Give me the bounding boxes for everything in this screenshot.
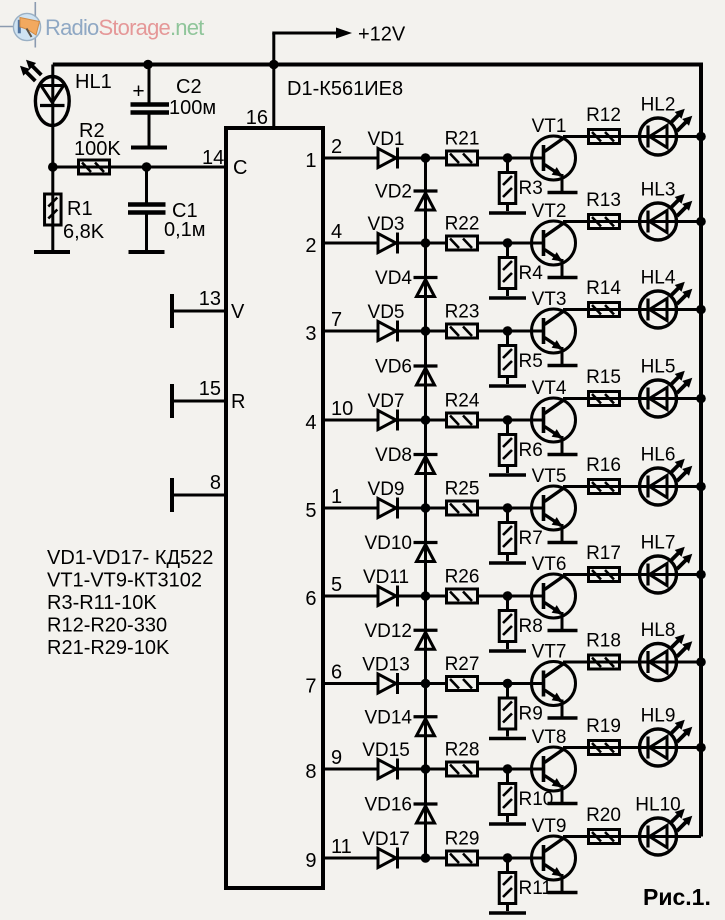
svg-text:R22: R22 — [445, 214, 480, 235]
svg-text:1: 1 — [331, 486, 342, 508]
svg-text:C2: C2 — [176, 76, 202, 98]
svg-text:VD16: VD16 — [364, 795, 412, 816]
svg-text:VT4: VT4 — [532, 378, 567, 399]
svg-text:R10: R10 — [519, 789, 554, 810]
svg-text:Рис.1.: Рис.1. — [643, 884, 711, 910]
svg-text:100м: 100м — [169, 97, 216, 119]
svg-text:D1-К561ИЕ8: D1-К561ИЕ8 — [287, 78, 403, 100]
svg-text:R9: R9 — [519, 704, 543, 725]
svg-text:+: + — [132, 80, 144, 103]
svg-text:HL5: HL5 — [641, 357, 676, 378]
svg-text:HL2: HL2 — [641, 95, 676, 116]
svg-text:VT2: VT2 — [532, 201, 567, 222]
svg-text:+12V: +12V — [358, 24, 406, 46]
svg-text:7: 7 — [331, 309, 342, 331]
svg-text:VD10: VD10 — [364, 533, 412, 554]
svg-text:4: 4 — [305, 412, 316, 434]
svg-text:R21-R29-10K: R21-R29-10K — [47, 637, 170, 659]
svg-text:5: 5 — [305, 500, 316, 522]
svg-text:100K: 100K — [74, 138, 121, 160]
svg-text:6,8K: 6,8K — [63, 221, 105, 243]
svg-text:R12-R20-330: R12-R20-330 — [47, 615, 167, 637]
svg-text:R26: R26 — [445, 567, 480, 588]
svg-text:R11: R11 — [519, 878, 552, 899]
svg-text:7: 7 — [305, 676, 316, 698]
svg-text:VD12: VD12 — [364, 621, 412, 642]
svg-text:R14: R14 — [586, 278, 621, 299]
svg-text:VT9: VT9 — [532, 816, 567, 837]
svg-text:VT8: VT8 — [532, 727, 567, 748]
svg-text:C: C — [233, 157, 247, 179]
svg-text:VD2: VD2 — [375, 182, 412, 203]
svg-text:R25: R25 — [445, 479, 480, 500]
svg-text:VD6: VD6 — [375, 357, 412, 378]
svg-text:VT1-VT9-КТ3102: VT1-VT9-КТ3102 — [47, 570, 202, 592]
svg-text:6: 6 — [331, 662, 342, 684]
svg-text:9: 9 — [331, 747, 342, 769]
svg-text:R12: R12 — [586, 105, 621, 126]
svg-text:R20: R20 — [586, 805, 621, 826]
svg-text:2: 2 — [305, 235, 316, 257]
svg-text:R3: R3 — [519, 178, 543, 199]
svg-text:13: 13 — [199, 288, 221, 310]
svg-text:15: 15 — [199, 378, 221, 400]
svg-text:4: 4 — [331, 221, 342, 243]
svg-text:R18: R18 — [586, 631, 621, 652]
svg-text:R6: R6 — [519, 440, 543, 461]
svg-text:VT5: VT5 — [532, 466, 567, 487]
svg-text:R16: R16 — [586, 455, 621, 476]
svg-text:HL10: HL10 — [635, 795, 680, 816]
svg-text:9: 9 — [305, 850, 316, 872]
svg-text:R23: R23 — [445, 302, 480, 323]
svg-text:VD8: VD8 — [375, 445, 412, 466]
svg-text:VD17: VD17 — [362, 829, 410, 850]
svg-text:R15: R15 — [586, 367, 621, 388]
svg-text:VD11: VD11 — [363, 567, 409, 588]
svg-text:VT3: VT3 — [532, 289, 567, 310]
svg-text:VT6: VT6 — [532, 554, 567, 575]
svg-text:VD5: VD5 — [368, 302, 405, 323]
svg-text:R3-R11-10K: R3-R11-10K — [47, 592, 157, 614]
svg-text:HL9: HL9 — [641, 706, 676, 727]
svg-text:R13: R13 — [586, 190, 621, 211]
svg-text:HL7: HL7 — [641, 533, 676, 554]
svg-text:R7: R7 — [519, 528, 543, 549]
svg-text:2: 2 — [331, 136, 342, 158]
svg-text:VD3: VD3 — [368, 214, 405, 235]
svg-text:3: 3 — [305, 323, 316, 345]
svg-text:VD9: VD9 — [368, 479, 405, 500]
svg-text:8: 8 — [210, 472, 221, 494]
svg-text:0,1м: 0,1м — [164, 219, 206, 241]
svg-text:R1: R1 — [67, 198, 93, 220]
svg-text:R21: R21 — [445, 129, 480, 150]
svg-text:VD15: VD15 — [362, 740, 410, 761]
svg-text:R: R — [231, 391, 245, 413]
svg-text:VD1: VD1 — [368, 129, 405, 150]
svg-text:R17: R17 — [586, 543, 621, 564]
svg-text:6: 6 — [305, 588, 316, 610]
svg-text:R29: R29 — [445, 829, 480, 850]
svg-text:HL3: HL3 — [641, 180, 676, 201]
svg-text:8: 8 — [305, 761, 316, 783]
svg-text:R4: R4 — [519, 263, 544, 284]
svg-text:R19: R19 — [586, 716, 621, 737]
svg-text:R5: R5 — [519, 351, 543, 372]
svg-text:R28: R28 — [445, 740, 480, 761]
svg-text:RadioStorage.net: RadioStorage.net — [45, 15, 204, 40]
svg-text:11: 11 — [331, 836, 352, 858]
svg-text:14: 14 — [202, 147, 224, 169]
svg-text:5: 5 — [331, 574, 342, 596]
svg-text:V: V — [231, 301, 245, 323]
svg-text:R27: R27 — [445, 654, 480, 675]
svg-text:16: 16 — [246, 107, 268, 129]
svg-text:VD4: VD4 — [375, 268, 412, 289]
svg-text:1: 1 — [305, 150, 316, 172]
svg-text:HL1: HL1 — [75, 71, 112, 93]
svg-text:HL4: HL4 — [641, 268, 676, 289]
svg-text:VD1-VD17- КД522: VD1-VD17- КД522 — [47, 547, 213, 569]
svg-text:R24: R24 — [445, 391, 480, 412]
svg-text:R8: R8 — [519, 616, 543, 637]
svg-text:HL6: HL6 — [641, 445, 676, 466]
svg-text:HL8: HL8 — [641, 620, 676, 641]
svg-text:VT1: VT1 — [532, 116, 567, 137]
svg-text:VD13: VD13 — [362, 655, 410, 676]
svg-text:VD7: VD7 — [368, 391, 405, 412]
svg-text:VD14: VD14 — [364, 707, 412, 728]
svg-text:10: 10 — [331, 398, 353, 420]
svg-text:VT7: VT7 — [532, 642, 567, 663]
